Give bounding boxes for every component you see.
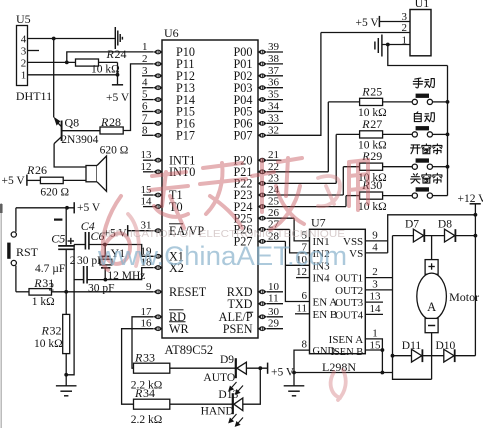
svg-text:32: 32	[268, 124, 279, 136]
scan edge artifact	[0, 203, 2, 428]
svg-text:2: 2	[70, 255, 76, 267]
U6 pin 22 P21 symbol	[258, 170, 267, 175]
svg-text:28: 28	[109, 115, 121, 129]
svg-text:39: 39	[268, 41, 280, 53]
svg-text:10: 10	[268, 281, 280, 293]
stub U6 pin 3	[142, 75, 154, 77]
svg-text:U7: U7	[311, 215, 326, 229]
junction U1 pin1	[386, 43, 390, 47]
wire U1 pin1 to ground	[382, 44, 410, 46]
svg-text:10 kΩ: 10 kΩ	[91, 64, 120, 76]
svg-text:2.2 kΩ: 2.2 kΩ	[131, 414, 163, 426]
wire R33 to D9	[170, 367, 235, 369]
U6 pin 13 INT1 symbol	[154, 158, 163, 163]
svg-text:AUTO: AUTO	[203, 372, 235, 384]
LED D13 arrows	[229, 414, 243, 426]
svg-text:D10: D10	[436, 340, 456, 352]
U6 pin 38 P01 symbol	[258, 62, 267, 67]
svg-text:Motor: Motor	[449, 290, 479, 304]
crystal Y1	[100, 245, 112, 280]
wire to C4	[89, 244, 105, 246]
U6 pin 16 WR symbol	[154, 326, 163, 331]
svg-text:DHT11: DHT11	[16, 89, 52, 103]
wire U5 pin1 to +5V	[28, 74, 118, 76]
wire P22 to R27 net	[335, 134, 337, 183]
svg-text:D7: D7	[405, 218, 419, 230]
sensor U1 body	[410, 10, 431, 56]
svg-text:25: 25	[370, 84, 382, 98]
svg-text:A: A	[427, 300, 436, 314]
wire RESET to R32	[65, 292, 67, 315]
svg-text:30: 30	[268, 306, 280, 318]
svg-text:TXD: TXD	[227, 297, 252, 311]
wire +5V to EA/VP	[128, 230, 154, 232]
C5 polarity plus	[68, 238, 74, 244]
stub U6 P04	[267, 99, 283, 101]
svg-text:+5 V: +5 V	[2, 175, 26, 187]
wire R25 to button	[383, 101, 413, 103]
diode D7	[413, 229, 424, 242]
wire button to rail	[433, 195, 448, 197]
ground stem	[65, 375, 67, 386]
wire P26 to IN2	[290, 229, 310, 253]
stub U6 P01	[267, 63, 283, 65]
svg-text:9: 9	[146, 281, 152, 293]
wire IN3 tap	[285, 264, 309, 266]
ground (U1), sideways left	[375, 35, 382, 57]
power +5V (RST)	[73, 202, 75, 213]
wire U6 P23	[267, 194, 344, 196]
label curtain-open label lian char3	[433, 144, 442, 154]
wire button to rail	[433, 101, 448, 103]
stub U6 P00	[267, 51, 283, 53]
svg-text:6: 6	[302, 290, 308, 302]
resistor R30	[360, 192, 383, 199]
wire P25 to IN1	[294, 218, 309, 241]
wire R29 left	[343, 166, 359, 168]
junction +12V / D8	[474, 234, 478, 238]
wire OUT1	[365, 277, 392, 279]
wire VS	[365, 252, 387, 254]
U6 pin 17 RD symbol	[154, 315, 163, 320]
svg-text:2: 2	[21, 57, 27, 69]
wire D9 to +5V	[246, 367, 267, 369]
pushbutton 关窗帘	[412, 187, 432, 198]
svg-text:D9: D9	[220, 354, 234, 366]
svg-text:ISEN B: ISEN B	[331, 347, 364, 358]
svg-text:30: 30	[370, 178, 382, 192]
junction +12V / VS	[474, 213, 478, 217]
U6 pin 24 P23 symbol	[258, 193, 267, 198]
resistor R27	[360, 131, 383, 138]
svg-text:Q8: Q8	[65, 116, 80, 130]
junction ISEN / ground net	[381, 371, 385, 375]
svg-text:30 pF: 30 pF	[88, 283, 115, 295]
wire P27 to IN3 and EN A	[285, 241, 309, 301]
svg-text:R: R	[100, 115, 109, 129]
U6 pin 10 RXD symbol	[258, 290, 267, 295]
U6 pin 18 X2 symbol	[154, 265, 163, 270]
label button label dong char2	[425, 79, 435, 88]
stub U6 P06	[267, 122, 283, 124]
svg-text:12: 12	[141, 161, 152, 173]
junction rail row 2	[446, 133, 450, 137]
stub U6 RXD	[267, 291, 283, 293]
ground (R32)	[56, 386, 77, 396]
U6 pin 36 P03 symbol	[258, 85, 267, 90]
svg-text:5: 5	[142, 89, 148, 101]
wire X1 net	[105, 245, 154, 257]
svg-text:RST: RST	[16, 245, 39, 259]
svg-text:R: R	[26, 163, 35, 177]
label button label zi (auto) char1	[414, 112, 421, 122]
svg-text:D11: D11	[402, 340, 422, 352]
stub U6 INT0	[143, 171, 154, 173]
junction rail row 1	[446, 100, 450, 104]
wire R27 left	[336, 133, 359, 135]
U6 pin 23 P22 symbol	[258, 181, 267, 186]
svg-text:U5: U5	[16, 12, 31, 26]
U6 pin 12 INT0 symbol	[154, 170, 163, 175]
svg-text:620 Ω: 620 Ω	[100, 145, 129, 157]
stub U6 PSEN	[267, 328, 283, 330]
svg-text:ISEN A: ISEN A	[329, 334, 364, 346]
wire button to rail	[433, 166, 448, 168]
wire C4 to ground rail	[74, 244, 85, 246]
power +5V (EA/VP)	[127, 225, 129, 236]
U6 pin 29 PSEN symbol	[258, 326, 267, 331]
svg-text:36: 36	[268, 77, 280, 89]
wire P07 to U1 output	[267, 33, 321, 136]
button common rail	[447, 66, 449, 196]
wire RST to R31	[15, 266, 17, 292]
stub U5 pin3	[28, 50, 40, 52]
svg-text:33: 33	[143, 351, 155, 365]
wire OUT2	[365, 289, 392, 291]
U6 pin 2 P11 symbol	[154, 62, 163, 67]
resistor R26	[40, 177, 63, 183]
svg-text:35: 35	[268, 89, 280, 101]
svg-text:RESET: RESET	[169, 285, 207, 299]
svg-text:P07: P07	[234, 129, 253, 143]
junction R24 / U5 pin1	[116, 73, 120, 77]
LED D13	[233, 393, 243, 414]
svg-text:U6: U6	[164, 26, 179, 40]
wire R34 to D13	[170, 403, 232, 405]
wire Q8 base to R28	[62, 130, 100, 132]
stub U6 P03	[267, 87, 283, 89]
wire U6 P21	[267, 171, 329, 173]
label curtain-open label chuang char2	[422, 144, 431, 154]
resistor R34	[134, 399, 170, 409]
wire R29 to button	[383, 166, 413, 168]
power +5V (U1)	[378, 16, 380, 27]
svg-text:R: R	[33, 276, 42, 290]
capacitor C6 30pF	[84, 266, 88, 284]
wire U5 pin4 to ground	[28, 38, 116, 40]
+12V rail	[474, 204, 476, 356]
resistor R31	[29, 289, 52, 296]
junction R32 / C4C6 ground	[64, 373, 68, 377]
svg-text:APPLICATION OF ELECTRONIC TECH: APPLICATION OF ELECTRONIC TECHNIQUE	[100, 229, 345, 240]
svg-text:U1: U1	[415, 0, 430, 10]
wire X2 net	[87, 268, 154, 280]
power +12V bar	[470, 203, 481, 205]
resistor R24	[76, 59, 99, 66]
svg-text:OUT1: OUT1	[335, 273, 363, 285]
svg-text:14: 14	[370, 303, 382, 315]
svg-text:R: R	[41, 323, 50, 337]
U6 pin 9 RESET symbol	[154, 290, 163, 295]
wire VSS	[365, 240, 387, 242]
diode D10	[444, 349, 455, 362]
svg-text:8: 8	[142, 124, 148, 136]
svg-text:VS: VS	[349, 248, 363, 260]
watermark red glyphs	[102, 158, 368, 400]
junction U5 pin4 / Q8	[52, 37, 56, 41]
wire P24 to R30 net	[345, 196, 347, 207]
svg-text:29: 29	[268, 318, 280, 330]
resistor R29	[360, 163, 383, 170]
stub U6 pin 5	[142, 99, 154, 101]
wire to R31	[16, 291, 29, 293]
svg-text:2: 2	[372, 266, 378, 278]
svg-text:17: 17	[141, 306, 153, 318]
resistor R28	[100, 127, 123, 134]
svg-text:4: 4	[21, 33, 27, 45]
junction +5V / C5	[65, 206, 69, 210]
resistor R33	[134, 363, 170, 373]
wire U6 P26	[267, 228, 290, 230]
svg-text:P17: P17	[176, 129, 195, 143]
svg-text:11: 11	[296, 302, 307, 314]
svg-text:37: 37	[268, 65, 280, 77]
wire ground net to bridge	[294, 372, 393, 374]
ground (U7)	[284, 386, 305, 396]
junction LED +5V	[258, 366, 262, 370]
svg-text:4.7 µF: 4.7 µF	[35, 263, 65, 275]
wire WR to R34	[122, 329, 154, 405]
U6 pin 39 P00 symbol	[258, 50, 267, 55]
wire U7 GND to ground	[294, 350, 310, 372]
wire U6 P27	[267, 240, 286, 242]
svg-text:34: 34	[143, 386, 155, 400]
svg-text:R: R	[106, 47, 115, 61]
wire +5V rail top	[16, 207, 74, 209]
svg-text:www.ChinaAET.com: www.ChinaAET.com	[97, 241, 347, 271]
stub U7 EN B	[295, 313, 310, 315]
wire to D13 anode	[243, 368, 261, 404]
svg-text:10 kΩ: 10 kΩ	[34, 338, 63, 350]
svg-text:26: 26	[35, 163, 47, 177]
wire to +5V bar	[117, 75, 119, 85]
wire +5V to U1 pin3	[379, 21, 410, 23]
svg-text:R: R	[361, 84, 370, 98]
svg-text:8: 8	[302, 339, 308, 351]
svg-text:24: 24	[115, 47, 127, 61]
overline WR	[169, 321, 186, 323]
left bridge rail (OUT1/OUT2)	[392, 236, 394, 356]
U6 pin 28 P27 symbol	[258, 239, 267, 244]
wire R32 to ground	[65, 354, 67, 375]
C5 polarity minus	[54, 219, 62, 221]
svg-text:10 kΩ: 10 kΩ	[358, 201, 387, 213]
svg-text:29: 29	[370, 149, 382, 163]
U6 pin 5 P14 symbol	[154, 97, 163, 102]
svg-text:2N3904: 2N3904	[61, 134, 98, 146]
svg-text:+5 V: +5 V	[106, 92, 130, 104]
svg-text:R: R	[134, 351, 143, 365]
svg-text:27: 27	[370, 117, 382, 131]
transistor Q8 2N3904	[54, 117, 62, 144]
wire U1 pin2 output	[321, 32, 410, 34]
wire Q8 collector to speaker	[54, 144, 86, 167]
svg-text:3: 3	[21, 45, 27, 57]
svg-text:2: 2	[142, 53, 148, 65]
junction X2 / crystal	[104, 278, 108, 282]
U6 pin 34 P05 symbol	[258, 109, 267, 114]
svg-text:EN A: EN A	[313, 297, 338, 309]
junction rail row 3	[446, 165, 450, 169]
svg-text:6: 6	[142, 101, 148, 113]
junction ISEN A/B	[381, 348, 385, 352]
svg-text:38: 38	[268, 53, 280, 65]
upper diode row	[393, 235, 476, 237]
U6 pin 37 P02 symbol	[258, 74, 267, 79]
svg-text:16: 16	[141, 318, 153, 330]
label button label dong char2b	[425, 113, 435, 122]
overline ALE/P bar	[247, 311, 254, 313]
wire R28 to U6 P11	[123, 64, 153, 131]
wire cap ground rail	[66, 245, 74, 375]
svg-text:R: R	[361, 117, 370, 131]
label curtain-close label lian char3	[433, 173, 442, 183]
speaker LS	[86, 156, 107, 191]
label curtain-close label chuang char2	[422, 173, 431, 183]
svg-text:13: 13	[370, 291, 382, 303]
stub U7 OUT3	[365, 301, 383, 303]
wire to RST switch	[15, 208, 17, 232]
pushbutton 开窗帘	[412, 158, 432, 169]
wire R26 to speaker	[63, 179, 86, 181]
U6 pin 15 T1 symbol	[154, 193, 163, 198]
svg-text:OUT3: OUT3	[335, 297, 364, 309]
LED D9 arrows	[229, 382, 243, 394]
wire R30 left	[346, 195, 360, 197]
stub U6 pin 6	[142, 111, 154, 113]
svg-text:OUT2: OUT2	[335, 285, 363, 297]
svg-text:9: 9	[372, 229, 378, 241]
svg-text:11: 11	[268, 293, 279, 305]
stub U6 ALE/P	[267, 316, 283, 318]
svg-text:+5 V: +5 V	[271, 366, 295, 378]
stub U6 pin 8	[142, 134, 154, 136]
junction rail / D11 row	[391, 354, 395, 358]
svg-text:21: 21	[268, 149, 279, 161]
U6 pin 27 P26 symbol	[258, 227, 267, 232]
stub U6 P05	[267, 111, 283, 113]
svg-text:4: 4	[142, 77, 148, 89]
svg-text:3: 3	[142, 65, 148, 77]
junction U5 pin2 / P10 net	[65, 61, 69, 65]
microcontroller U6 AT89C52 body	[162, 40, 258, 338]
capacitor C4 30pF	[85, 232, 89, 250]
svg-text:4: 4	[372, 241, 378, 253]
U6 pin 1 P10 symbol	[154, 50, 163, 55]
wire C6 to ground rail	[74, 279, 84, 281]
svg-text:620 Ω: 620 Ω	[40, 187, 69, 199]
stub U6 P02	[267, 75, 283, 77]
svg-text:+5 V: +5 V	[77, 202, 101, 214]
stub U6 T1	[143, 194, 154, 196]
svg-text:C5: C5	[51, 231, 65, 245]
ground stem U7	[293, 373, 295, 386]
stub U7 OUT4	[365, 313, 383, 315]
U6 pin 11 TXD symbol	[258, 301, 267, 306]
LED D9	[236, 358, 247, 378]
pushbutton RST	[7, 232, 16, 266]
svg-text:34: 34	[268, 101, 280, 113]
wire P23 to R29 net	[342, 167, 344, 195]
U6 pin 25 P24 symbol	[258, 204, 267, 209]
wire RD to R33	[132, 317, 154, 368]
U6 pin 30 ALE/P symbol	[258, 315, 267, 320]
wire to Q8 emitter	[53, 39, 55, 118]
U6 pin 21 P20 symbol	[258, 158, 267, 163]
overline EA	[169, 223, 183, 225]
svg-text:D8: D8	[438, 218, 452, 230]
wire U6 P24	[267, 206, 346, 208]
svg-text:1: 1	[142, 41, 148, 53]
lower diode row	[393, 355, 476, 357]
stub U6 INT1	[143, 159, 154, 161]
wire R24 to +5V node	[117, 62, 119, 74]
pushbutton 自动	[412, 126, 432, 137]
wire U5 pin2 to R24	[28, 61, 76, 63]
svg-text:13: 13	[141, 149, 153, 161]
svg-text:3: 3	[372, 278, 378, 290]
wire RESET net to U6 pin 9	[52, 291, 154, 293]
power +5V (LED)	[267, 363, 269, 374]
junction RESET net	[64, 290, 68, 294]
resistor R32 body	[63, 314, 70, 353]
svg-text:1: 1	[21, 70, 27, 82]
stub U6 T0	[143, 206, 154, 208]
svg-text:1 kΩ: 1 kΩ	[32, 296, 55, 308]
stub U7 IN4	[296, 277, 310, 279]
wire R30 to button	[383, 195, 413, 197]
svg-text:7: 7	[142, 112, 148, 124]
svg-text:AT89C52: AT89C52	[165, 343, 214, 357]
U6 pin 32 P07 symbol	[258, 133, 267, 138]
svg-text:EN B: EN B	[313, 309, 338, 321]
svg-text:D13: D13	[218, 389, 238, 401]
wire button to rail	[433, 133, 448, 135]
ground (U5 pin4), sideways	[115, 27, 122, 49]
wire supply riser to +12V	[388, 215, 476, 253]
motor M	[417, 236, 447, 333]
wire ISEN B	[365, 349, 382, 351]
capacitor C5 4.7uF	[58, 208, 75, 292]
wire U6 P20	[267, 159, 282, 161]
svg-text:OUT4: OUT4	[335, 309, 364, 321]
junction X1 / crystal	[103, 243, 107, 247]
U6 pin 8 P17 symbol	[154, 133, 163, 138]
wire P21 to R25 net	[327, 102, 329, 172]
svg-text:1: 1	[372, 327, 378, 339]
overline RD	[169, 309, 184, 311]
wire U6 P25	[267, 217, 295, 219]
